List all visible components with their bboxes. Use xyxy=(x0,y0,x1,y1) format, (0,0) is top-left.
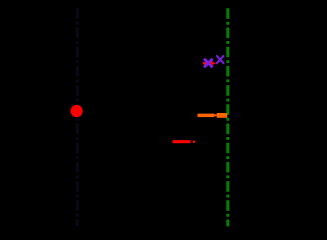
red dashed segment main dash xyxy=(173,140,191,143)
purple X marker right (thin) xyxy=(216,55,224,64)
orange bar segment 1 xyxy=(198,114,215,118)
red dot marker xyxy=(71,105,83,117)
red arrow head xyxy=(211,61,216,66)
purple X marker left (thick) xyxy=(204,59,213,68)
green dash-dot vertical line (right) xyxy=(226,8,229,226)
faint dark navy dash-dot vertical line (left) xyxy=(76,8,79,226)
orange bar segment 2 xyxy=(217,113,228,118)
orange thin connector xyxy=(214,114,216,116)
red dashed segment small dot xyxy=(193,141,195,143)
red arrow shaft xyxy=(203,62,212,65)
